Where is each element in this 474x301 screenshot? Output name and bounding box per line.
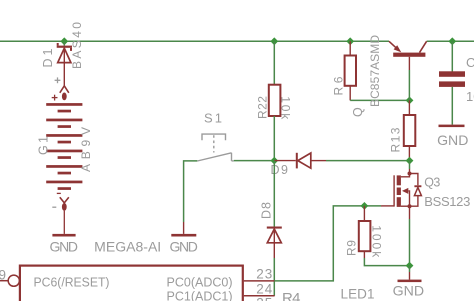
svg-text:PC0(ADC0): PC0(ADC0) — [167, 276, 233, 290]
wire R13 to drain node — [408, 146, 410, 161]
node junction C/rail — [448, 37, 456, 45]
svg-text:Q3: Q3 — [424, 176, 440, 190]
ground capacitor — [439, 125, 465, 128]
svg-text:Q: Q — [351, 107, 365, 117]
svg-text:BAS40: BAS40 — [70, 22, 84, 69]
transistor Q1 BC857ASMD — [389, 41, 427, 70]
svg-text:D9: D9 — [271, 163, 289, 177]
resistor R6 — [345, 56, 356, 86]
diode D8 — [267, 227, 282, 259]
wire S1 gnd stub — [183, 222, 185, 234]
battery G1 plates — [46, 103, 82, 190]
wire base to node — [408, 70, 410, 100]
svg-text:GND: GND — [50, 238, 79, 254]
diode D9 — [274, 153, 326, 169]
svg-text:D1: D1 — [41, 48, 55, 67]
wire node A down to D8 — [273, 161, 275, 227]
IC MEGA8 box — [20, 266, 243, 301]
switch S1 — [197, 134, 234, 161]
svg-text:S1: S1 — [204, 110, 222, 125]
wire R6 to base node — [350, 99, 409, 101]
ground S1 — [171, 234, 196, 237]
wire D9 to drain node — [326, 160, 410, 162]
wire gate node to R9 — [363, 206, 365, 221]
svg-text:PC6(/RESET): PC6(/RESET) — [34, 276, 110, 290]
svg-text:GND: GND — [393, 282, 425, 298]
wire to gnd right — [409, 266, 411, 272]
svg-text:R9: R9 — [345, 240, 359, 256]
svg-text:R4: R4 — [282, 290, 301, 301]
mosfet Q3 BSS123 — [381, 161, 421, 219]
node junction R22/rail — [270, 37, 278, 45]
wire top rail right — [427, 40, 474, 42]
battery G1 minus terminal — [52, 193, 69, 234]
svg-text:10k: 10k — [279, 96, 293, 120]
svg-text:24: 24 — [256, 282, 272, 297]
node junction R6/rail — [346, 37, 354, 45]
wire pin23 to gate riser — [274, 206, 381, 281]
svg-text:PC1(ADC1): PC1(ADC1) — [167, 290, 233, 301]
svg-text:BC857ASMD: BC857ASMD — [368, 35, 382, 107]
svg-text:100n: 100n — [466, 89, 474, 104]
wire R6 top pin — [349, 41, 351, 55]
wire rail to R22 — [273, 41, 275, 84]
wire C to gnd — [451, 87, 453, 125]
svg-text:GND: GND — [437, 132, 468, 148]
node junction D1/rail — [60, 37, 68, 45]
pin 9 line — [0, 280, 8, 282]
wire S1 right to node A — [234, 160, 274, 162]
svg-text:R6: R6 — [332, 76, 346, 95]
svg-text:23: 23 — [256, 266, 272, 281]
svg-text:100k: 100k — [369, 225, 383, 258]
wire source down — [409, 219, 411, 266]
resistor R9 — [359, 221, 371, 251]
wire rail to C — [451, 41, 453, 71]
wire D8 to pin23 — [273, 258, 275, 281]
svg-text:AB9V: AB9V — [79, 127, 93, 172]
pin 24 line — [244, 295, 275, 297]
svg-text:25: 25 — [256, 296, 272, 301]
pin 9 bubble — [8, 275, 19, 286]
wire pin23 junction down to pin24 — [273, 281, 275, 296]
svg-text:G1: G1 — [37, 136, 51, 155]
svg-text:GND: GND — [170, 238, 198, 254]
resistor R22 — [269, 85, 281, 116]
wire R22 to node A — [273, 116, 275, 161]
wire top rail left — [0, 40, 389, 42]
svg-text:BSS123: BSS123 — [424, 194, 470, 209]
node gate junction — [361, 202, 369, 210]
capacitor C — [439, 71, 465, 87]
svg-text:9: 9 — [0, 267, 6, 282]
battery G1 plus terminal — [52, 77, 69, 100]
node A junction — [270, 157, 278, 165]
svg-text:MEGA8-AI: MEGA8-AI — [94, 239, 161, 254]
svg-text:R22: R22 — [256, 96, 270, 119]
ground battery — [52, 234, 75, 237]
diode D1 — [57, 41, 72, 86]
svg-text:R13: R13 — [389, 127, 403, 152]
node base junction — [406, 97, 414, 105]
svg-text:C: C — [466, 55, 474, 70]
svg-text:LED1: LED1 — [341, 287, 375, 301]
ground right — [398, 280, 422, 283]
wire R6 bottom — [349, 86, 351, 101]
wire node to R13 — [408, 100, 410, 115]
wire S1 left to GND — [184, 161, 198, 222]
wire R9 bottom — [363, 251, 365, 258]
node drain junction — [406, 157, 414, 165]
svg-text:D8: D8 — [260, 202, 274, 219]
node source gnd junction — [406, 262, 414, 270]
pin 23 line — [244, 280, 275, 282]
resistor R13 — [404, 115, 416, 146]
